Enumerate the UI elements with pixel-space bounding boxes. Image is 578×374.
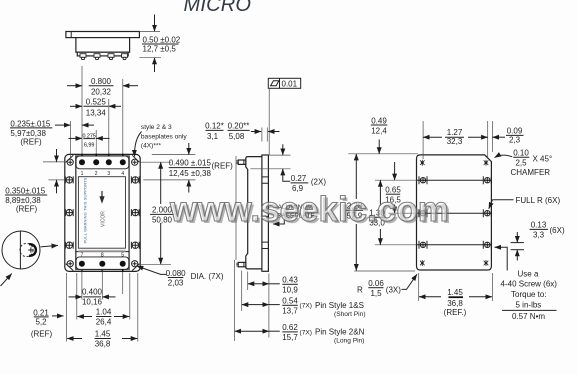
section line [19,231,21,268]
screws right col [483,176,491,249]
top pin strip [76,156,129,169]
svg-text:7: 7 [81,253,84,259]
pin numbers 7 8 5 [81,253,125,259]
svg-text:1.45: 1.45 [95,330,111,339]
corner screw BL [67,261,73,267]
svg-text:0.50 ±0.02: 0.50 ±0.02 [143,36,181,45]
arrow down [154,15,156,32]
svg-text:4-40 Screw (6x): 4-40 Screw (6x) [501,279,558,288]
side screws left [65,176,73,248]
svg-text:VICOR: VICOR [100,211,106,227]
svg-text:2,5: 2,5 [515,158,527,167]
svg-text:Use a: Use a [518,270,539,279]
svg-text:0.54: 0.54 [282,297,298,306]
svg-text:0.350±.015: 0.350±.015 [5,187,46,196]
svg-text:0.525: 0.525 [86,98,107,107]
ext verticals 1.27 [422,121,424,159]
svg-text:Pin Style 1&S: Pin Style 1&S [315,301,364,310]
svg-text:(2X): (2X) [311,178,326,187]
svg-text:1: 1 [81,171,84,177]
ext line pin row1 [141,161,171,163]
svg-text:8: 8 [101,253,104,259]
svg-text:3: 3 [107,171,110,177]
dim 1.04/26,4 [77,308,129,327]
top pins 1-4 [79,159,126,165]
dim 0.490 arrows [188,143,190,155]
ext line bottom [139,57,161,59]
top dims [10,66,138,159]
corner screw BR [132,261,138,267]
bottom dims [31,269,138,349]
svg-text:(6X): (6X) [550,226,565,235]
left dims [5,149,66,214]
bottom pins 7 8 5 [79,261,126,267]
svg-text:12,45 ±0,38: 12,45 ±0,38 [169,169,212,178]
dim 1.45/36,8 [67,330,137,349]
ext line top [139,30,160,32]
ext line screw row top [43,161,66,163]
svg-text:10,16: 10,16 [82,298,103,307]
dim 0.275/6,99 [69,133,110,149]
svg-text:0.43: 0.43 [282,276,298,285]
svg-text:(Short Pin): (Short Pin) [334,311,366,318]
svg-text:2: 2 [95,171,98,177]
baseplate flange plate [66,32,139,38]
ext line pin4 [122,79,124,154]
svg-text:5: 5 [121,253,124,259]
ext line corner screw col [69,121,71,159]
svg-text:0.235±.015: 0.235±.015 [10,119,51,128]
bottom view dims [346,116,552,317]
svg-text:20,32: 20,32 [91,88,112,97]
svg-text:(Long Pin): (Long Pin) [334,338,364,345]
svg-text:X 45°: X 45° [533,155,553,164]
label bottom gray band [78,250,125,252]
ext line pin8 [101,269,103,300]
arrow from lower-left [1,274,12,286]
module body [76,38,130,53]
ext bottom edge left [354,270,415,272]
ext line outer left [66,273,68,342]
svg-text:12,7 ±0,5: 12,7 ±0,5 [143,45,177,54]
dim 0.43/10,9 [248,276,299,295]
top pin [238,160,246,164]
svg-text:13,7: 13,7 [282,307,298,316]
leader to baseplate [268,88,270,155]
svg-text:2,3: 2,3 [509,135,521,144]
svg-text:(REF): (REF) [20,137,42,146]
svg-text:CHAMFER: CHAMFER [511,168,551,177]
dim 0.350 arrows [56,149,58,162]
outline (top-right corner chamfered) [417,155,492,270]
svg-text:26,4: 26,4 [96,318,112,327]
watermark [169,190,451,231]
svg-text:1,5: 1,5 [370,289,382,298]
body rect [76,156,129,269]
chamfer callout [495,149,553,178]
notes right [489,196,565,321]
outer flange outline [65,154,140,271]
side screws right [131,176,139,248]
svg-text:32,3: 32,3 [447,137,463,146]
svg-text:5 in-lbs: 5 in-lbs [516,301,542,310]
svg-text:(REF): (REF) [16,205,38,214]
svg-text:0.12*: 0.12* [205,122,224,131]
dim 0.13/3,3 (6X) [511,221,565,261]
bottom pin [238,262,246,266]
svg-text:0.62: 0.62 [282,323,298,332]
corner screw TL [67,159,73,165]
svg-text:10,9: 10,9 [282,286,298,295]
flange left tab divider [70,32,72,38]
baseplate strip [262,155,269,271]
leader to side screws [41,245,59,247]
svg-text:baseplates only: baseplates only [141,134,188,141]
FULL R (6X) label [489,196,561,209]
svg-text:www.seekic.com: www.seekic.com [169,190,449,229]
bottom view right [417,155,492,270]
use-a-screw leader [495,247,508,270]
bottom rail [77,52,128,56]
svg-text:0.49: 0.49 [371,116,387,125]
label ALUMINUM BASEPLATE [273,204,315,224]
ext vertical right edge [491,121,493,152]
label rect [78,177,125,249]
dim 0.080 DIA [137,266,224,288]
dim R 0.06 (3X) [357,274,417,298]
ext line top edge [152,154,196,156]
pin numbers 1 2 3 4 [81,171,125,177]
dim 0.525/13,34 [70,98,121,118]
dim 0.27 (2X) [251,144,327,193]
svg-text:FULL R (6X): FULL R (6X) [516,196,561,205]
ext line screw row [143,179,195,181]
svg-text:3,1: 3,1 [207,132,219,141]
svg-text:15,7: 15,7 [282,333,298,342]
note style 2 & 3 [135,124,188,157]
svg-text:(REF): (REF) [212,161,234,170]
pin stubs through flange [82,154,123,273]
ext verticals [234,260,236,341]
dim 0.09/2,3 [492,127,523,145]
svg-text:2,03: 2,03 [168,279,184,288]
svg-text:0.20**: 0.20** [228,122,250,131]
bottom label strip lines [76,251,129,253]
dim 0.400/10,16 [69,288,116,307]
svg-text:0.800: 0.800 [91,77,112,86]
svg-text:36,8: 36,8 [95,340,111,349]
dim 0.49/12,4 [371,116,387,154]
ext line pin2 [95,130,97,154]
screw hole marks on baseplate [262,177,269,249]
corner chamfer marks [66,155,74,162]
dim 0.50 [139,15,180,73]
pin shoulders and tips [80,54,128,60]
screws left col [419,176,427,249]
svg-text:MICRO: MICRO [184,0,252,16]
svg-text:(REF.): (REF.) [444,308,467,317]
dim 0.21/5,2 (REF) [31,308,64,338]
dim 0.800/20,32 [67,77,138,97]
ext top edge left [348,153,418,155]
svg-text:0.01: 0.01 [282,79,298,88]
long-pin extension line [235,156,237,260]
svg-text:0.400: 0.400 [82,288,103,297]
svg-text:0.06: 0.06 [368,279,384,288]
dim 1.45/36,8 (REF.) [419,273,493,317]
svg-text:12,4: 12,4 [371,126,387,135]
dashed thread circle [20,243,33,256]
arrow up [154,58,156,72]
corner screw TR [132,159,138,165]
bottom pin strip [76,257,129,269]
svg-text:13,34: 13,34 [86,108,107,117]
ext line pin5 [122,272,124,294]
svg-text:6,99: 6,99 [84,142,95,148]
ext line body left [76,273,78,320]
ext line pin1 [81,66,83,154]
svg-text:0.09: 0.09 [507,127,523,136]
ext line outer right [137,273,139,342]
flatness parallelogram symbol [271,81,279,86]
vicor logo arrow [101,191,103,197]
svg-text:1.45: 1.45 [447,288,463,297]
dim 0.235±.015 [10,119,94,146]
svg-text:5,08: 5,08 [229,132,245,141]
side elevation view top-left [66,32,139,60]
svg-text:PULL WARNING THIS SUPPORTS: PULL WARNING THIS SUPPORTS [83,177,88,243]
case outline [246,157,262,269]
callout box [268,78,300,88]
svg-text:(4X)***: (4X)*** [141,142,162,149]
dim 1.30/33,0 [369,180,386,245]
ext line body right [129,273,131,320]
right-of-front dims [135,124,234,288]
svg-text:4: 4 [121,171,124,177]
svg-text:0.21: 0.21 [33,308,49,317]
svg-text:0.490 ±.015: 0.490 ±.015 [169,158,212,167]
dim 2.000/50,80 [150,162,174,264]
svg-text:Torque to:: Torque to: [511,290,547,299]
pin length dims [235,260,366,345]
profile view center [205,122,326,272]
svg-text:0.13: 0.13 [531,221,547,230]
plus mark [28,247,33,252]
corner marks [420,160,488,266]
svg-text:0.080: 0.080 [166,269,187,278]
svg-text:(7X): (7X) [300,303,312,310]
svg-text:1.04: 1.04 [96,308,112,317]
dim 2.28/57,9 [346,154,363,271]
detail circle outline [2,231,40,269]
svg-text:5,2: 5,2 [35,318,47,327]
svg-text:(REF): (REF) [31,330,53,339]
svg-text:1.27: 1.27 [447,128,463,137]
groove lines [417,179,492,181]
svg-text:(7X): (7X) [300,329,312,336]
thick screw arc [29,244,36,256]
dim 0.65/16,5 [385,162,401,213]
svg-text:0.27: 0.27 [291,174,307,183]
svg-text:DIA. (7X): DIA. (7X) [191,272,224,281]
detail circle [1,231,59,286]
dim 1.27/32,3 [423,128,488,146]
svg-text:0.10: 0.10 [513,149,529,158]
ext line pin3 [108,99,110,154]
front view [65,154,140,273]
svg-text:Pin Style 2&N: Pin Style 2&N [315,328,365,337]
svg-text:style 2 & 3: style 2 & 3 [141,124,172,131]
flatness callout [268,78,300,155]
title MICRO [184,0,252,16]
dim 0.12* 0.20** [205,122,279,142]
svg-text:3,3: 3,3 [533,231,545,240]
dim 0.62/15,7 pin style 2&N [235,323,365,345]
ext line side screw row [49,179,65,181]
ext rows left [375,179,417,181]
dim 0.54/13,7 pin style 1&S [242,297,366,318]
ext line pin7 [81,269,83,300]
svg-text:0.57 N•m: 0.57 N•m [512,312,545,321]
svg-text:(3X): (3X) [386,285,401,294]
screw note text [501,270,558,321]
svg-text:R: R [357,285,363,294]
svg-text:36,8: 36,8 [447,299,463,308]
ext line pin row2 [141,263,171,265]
